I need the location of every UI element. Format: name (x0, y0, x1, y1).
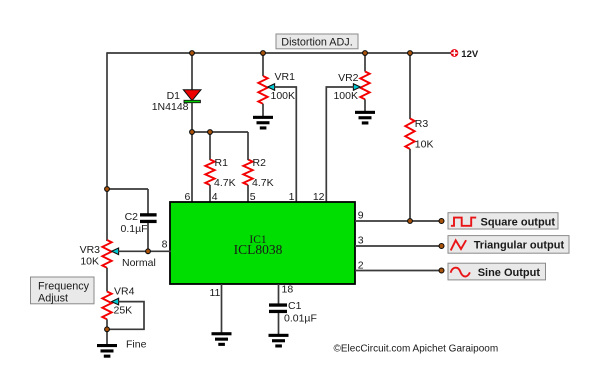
svg-text:25K: 25K (114, 305, 133, 317)
label box Distortion ADJ. (276, 34, 358, 49)
wire VR2 wiper to pin 12 (326, 87, 354, 203)
svg-text:Distortion ADJ.: Distortion ADJ. (281, 36, 352, 48)
svg-text:4: 4 (212, 191, 218, 203)
wire C2 branch horizontal (107, 188, 148, 190)
svg-text:ICL8038: ICL8038 (234, 242, 283, 257)
svg-text:R3: R3 (415, 118, 429, 130)
svg-text:Sine Output: Sine Output (478, 267, 541, 279)
svg-text:VR4: VR4 (114, 286, 135, 298)
terminal pin 3 (439, 244, 444, 249)
svg-text:©ElecCircuit.com Apichet Garai: ©ElecCircuit.com Apichet Garaipoom (334, 344, 499, 355)
svg-text:10K: 10K (80, 256, 99, 268)
wire pin 6 (191, 132, 193, 203)
capacitor C2 (140, 213, 157, 223)
junction node VR4 bottom (105, 327, 110, 332)
potentiometer VR1 (258, 76, 267, 104)
wire VR3 to VR4 (106, 268, 108, 292)
wire C2 top (147, 189, 149, 214)
wire VR2 top (364, 53, 366, 72)
ground VR4 (97, 344, 117, 358)
label box Triangular output (448, 236, 569, 254)
wire pin 4 lower (209, 185, 211, 203)
ground pin 11 (212, 332, 232, 346)
resistor R3 (405, 119, 414, 150)
svg-text:100K: 100K (333, 90, 358, 102)
wire pin 3 output (355, 245, 441, 247)
wire R3 to pin9 line (409, 149, 411, 221)
svg-text:R1: R1 (215, 157, 229, 169)
svg-text:Triangular output: Triangular output (474, 240, 565, 252)
svg-text:C2: C2 (125, 211, 139, 223)
junction node rail at pin6 (190, 130, 195, 135)
wire VR1 to ground (262, 104, 264, 116)
label box Frequency Adjust (31, 277, 95, 305)
resistor R2 (243, 160, 252, 186)
potentiometer VR4 (102, 292, 111, 320)
power symbol +12V (451, 49, 459, 57)
svg-text:Adjust: Adjust (38, 293, 68, 305)
VR1 wiper arrow (268, 84, 275, 91)
svg-text:1N4148: 1N4148 (152, 101, 189, 113)
svg-text:4.7K: 4.7K (214, 177, 236, 189)
wire D1 cathode to node rail (191, 103, 193, 132)
wire pin 11 (221, 284, 223, 333)
wire C2 bottom (147, 223, 149, 251)
svg-text:4.7K: 4.7K (252, 177, 274, 189)
svg-text:VR2: VR2 (338, 72, 359, 84)
wire pin 9 output (355, 220, 441, 222)
wire pin 5 (247, 185, 249, 203)
label box Square output (448, 213, 558, 229)
svg-text:Frequency: Frequency (38, 281, 90, 293)
svg-text:11: 11 (210, 287, 221, 299)
wire C1 to ground (278, 313, 280, 334)
junction node C2/pin8 (146, 249, 151, 254)
svg-text:5: 5 (250, 191, 256, 203)
junction node R3/pin9 (408, 219, 413, 224)
wire pin 2 output (355, 270, 441, 272)
svg-text:10K: 10K (415, 139, 434, 151)
VR3 wiper arrow (112, 248, 119, 255)
svg-text:1: 1 (289, 191, 295, 203)
potentiometer VR3 (102, 240, 111, 268)
wire VR1 wiper to pin 1 (274, 87, 296, 203)
terminal pin 2 (439, 268, 444, 273)
svg-text:VR3: VR3 (80, 244, 101, 256)
svg-text:VR1: VR1 (275, 71, 296, 83)
svg-text:6: 6 (184, 191, 190, 203)
capacitor C1 (269, 303, 287, 313)
svg-text:18: 18 (282, 284, 294, 296)
svg-text:12V: 12V (461, 49, 479, 60)
wire top rail (107, 52, 451, 54)
junction node rail at R1 (208, 130, 213, 135)
wire R2 top (247, 132, 249, 160)
VR4 wiper arrow (112, 298, 119, 305)
svg-text:C1: C1 (288, 300, 302, 312)
junction node top rail at D1 (190, 51, 195, 56)
svg-text:Normal: Normal (122, 257, 156, 269)
svg-text:R2: R2 (253, 157, 267, 169)
svg-text:Fine: Fine (126, 339, 147, 351)
wire R3 top (409, 53, 411, 119)
wire pin 18 (278, 284, 280, 304)
diode D1 (183, 90, 201, 103)
ground C1 (269, 334, 289, 348)
svg-text:8: 8 (162, 239, 168, 251)
wire VR4 to ground (106, 319, 108, 344)
wire VR3 wiper to pin 8 (118, 250, 171, 252)
ground VR1 (253, 116, 273, 130)
label box Sine Output (448, 263, 546, 280)
resistor R1 (205, 160, 214, 186)
junction node top rail at R3 (408, 51, 413, 56)
svg-text:0.01µF: 0.01µF (284, 313, 317, 325)
svg-text:100K: 100K (271, 90, 296, 102)
wire pin 4 upper (209, 132, 211, 160)
VR2 wiper arrow (353, 84, 360, 91)
junction node top rail at VR1 (261, 51, 266, 56)
potentiometer VR2 (360, 72, 369, 100)
wire VR2 to ground (364, 99, 366, 111)
svg-text:0.1µF: 0.1µF (121, 223, 148, 235)
wire VR1 top (262, 53, 264, 76)
wire left rail (106, 52, 108, 241)
terminal pin 9 (439, 219, 444, 224)
svg-text:9: 9 (358, 210, 364, 222)
ground VR2 (355, 111, 375, 125)
svg-text:Square output: Square output (481, 216, 556, 228)
wire rail to R2 top (192, 131, 248, 133)
junction node left rail C2 (105, 187, 110, 192)
wire D1 anode drop (191, 53, 193, 90)
wire VR4 wiper loop (108, 302, 144, 330)
IC U1 ICL8038 (170, 202, 355, 284)
svg-text:3: 3 (358, 235, 364, 247)
junction node top rail at VR2 (363, 51, 368, 56)
svg-text:12: 12 (313, 191, 325, 203)
